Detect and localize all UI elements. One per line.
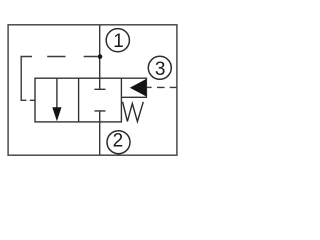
pilot actuator box — [121, 78, 146, 97]
port label circle 3 — [148, 56, 171, 79]
svg-text:3: 3 — [155, 59, 166, 80]
pilot actuator triangle — [130, 79, 147, 97]
port label circle 1 — [106, 29, 129, 52]
wire port 1 line — [99, 25, 101, 78]
wire port 2 line — [99, 122, 101, 155]
pilot line stub right — [146, 86, 151, 88]
node junction dot — [98, 54, 103, 59]
pilot line vertical — [20, 56, 22, 101]
valve cell divider — [78, 78, 80, 122]
flow arrow line (open position) — [56, 78, 58, 109]
blocked port T top — [94, 78, 105, 89]
svg-text:2: 2 — [113, 131, 124, 152]
port label circle 2 — [107, 131, 130, 154]
pilot line dashed horizontal — [21, 56, 97, 58]
valve envelope (component boundary box) — [8, 25, 177, 155]
spring W — [123, 102, 144, 122]
pilot line dashed hook to valve — [21, 99, 34, 101]
pilot line dashed to port 3 — [157, 86, 177, 88]
svg-text:1: 1 — [113, 31, 124, 52]
valve body rectangle — [35, 78, 121, 122]
blocked port T bottom — [94, 111, 105, 122]
flow arrowhead — [52, 107, 61, 121]
